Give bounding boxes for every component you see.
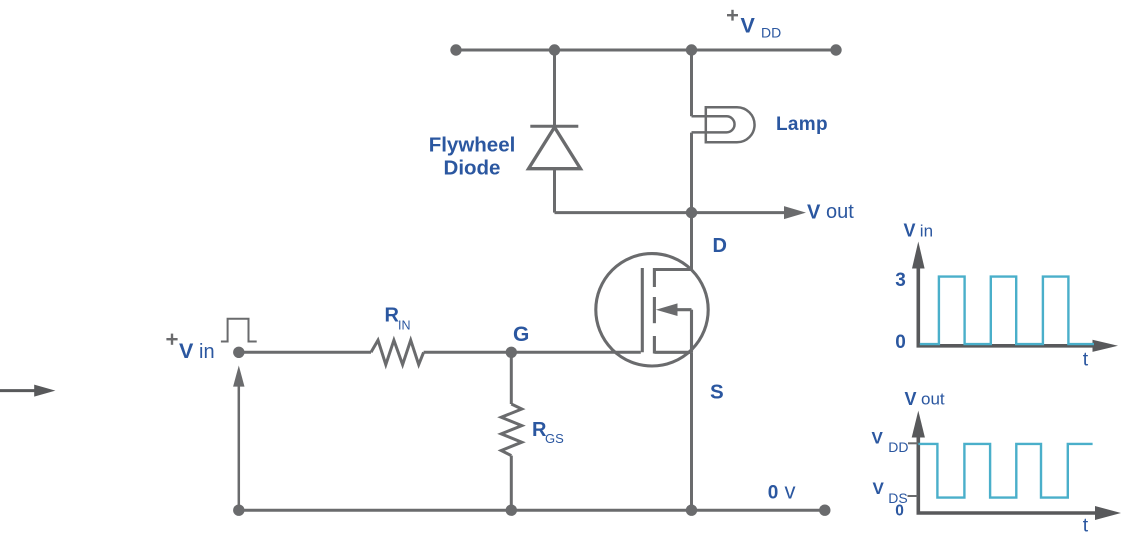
svg-text:in: in: [920, 222, 933, 241]
svg-text:out: out: [921, 390, 945, 409]
svg-text:DD: DD: [761, 25, 781, 41]
svg-text:V: V: [807, 201, 821, 223]
svg-text:V: V: [872, 429, 884, 448]
svg-text:v: v: [785, 479, 796, 504]
svg-text:V: V: [741, 13, 756, 37]
svg-text:Lamp: Lamp: [776, 114, 828, 135]
svg-text:D: D: [713, 235, 727, 257]
svg-text:0: 0: [895, 503, 904, 520]
svg-text:DD: DD: [888, 439, 908, 455]
svg-text:V: V: [904, 221, 916, 241]
svg-text:V: V: [905, 389, 917, 409]
svg-text:0: 0: [768, 482, 779, 503]
svg-text:Diode: Diode: [444, 157, 501, 180]
svg-text:out: out: [826, 201, 854, 223]
svg-text:t: t: [1083, 348, 1089, 370]
svg-text:GS: GS: [545, 431, 564, 446]
svg-text:V: V: [873, 479, 885, 498]
svg-text:S: S: [710, 381, 724, 404]
svg-text:IN: IN: [398, 318, 411, 332]
svg-text:Flywheel: Flywheel: [429, 134, 516, 157]
svg-text:G: G: [513, 323, 529, 346]
svg-text:3: 3: [895, 270, 906, 291]
svg-text:in: in: [199, 341, 215, 363]
svg-text:V: V: [179, 339, 194, 363]
svg-text:0: 0: [895, 332, 906, 353]
svg-text:t: t: [1083, 515, 1089, 536]
